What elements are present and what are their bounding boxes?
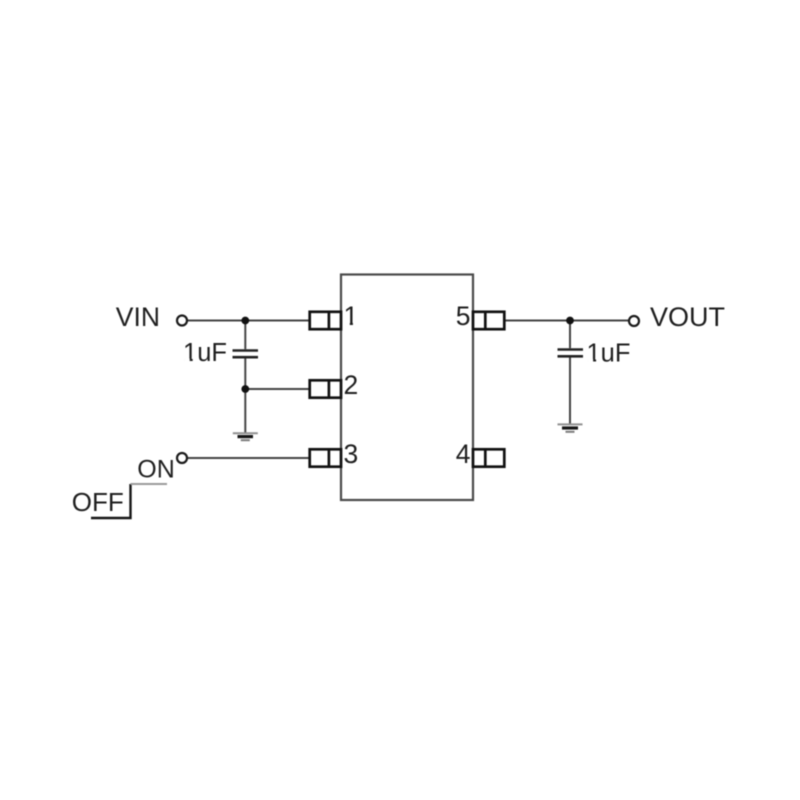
svg-text:1uF: 1uF (587, 340, 631, 368)
svg-text:ON: ON (137, 456, 175, 484)
svg-text:2: 2 (344, 370, 359, 400)
svg-text:VIN: VIN (116, 302, 160, 332)
svg-text:VOUT: VOUT (650, 302, 725, 332)
svg-text:3: 3 (344, 439, 359, 469)
svg-text:4: 4 (456, 439, 471, 469)
svg-text:5: 5 (456, 301, 471, 331)
svg-text:OFF: OFF (72, 487, 124, 517)
svg-text:1: 1 (344, 301, 359, 331)
svg-text:1uF: 1uF (183, 339, 227, 367)
